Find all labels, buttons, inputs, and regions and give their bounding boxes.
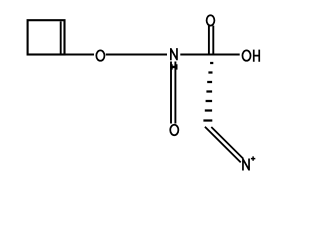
hashed wedge bond xyxy=(203,63,213,121)
plus charge xyxy=(251,156,255,160)
wire bond N to C to OH xyxy=(180,54,239,56)
atom O carbonyl top xyxy=(207,15,215,25)
double bond C=O xyxy=(209,26,213,54)
cyclobutene ring xyxy=(28,20,65,54)
wire bond O to N xyxy=(106,54,167,56)
atom O of OH xyxy=(242,50,250,60)
atom N xyxy=(171,48,177,60)
atom H of OH xyxy=(254,50,260,62)
atom N plus xyxy=(243,158,249,170)
atom O ether xyxy=(96,50,104,60)
double bond C=N plus xyxy=(205,127,243,163)
atom H on N xyxy=(172,64,177,69)
ring double bond inner line xyxy=(60,21,62,53)
wire bond ring to O xyxy=(65,54,95,56)
atom O below N xyxy=(170,125,178,135)
double bond N=O xyxy=(171,62,175,124)
